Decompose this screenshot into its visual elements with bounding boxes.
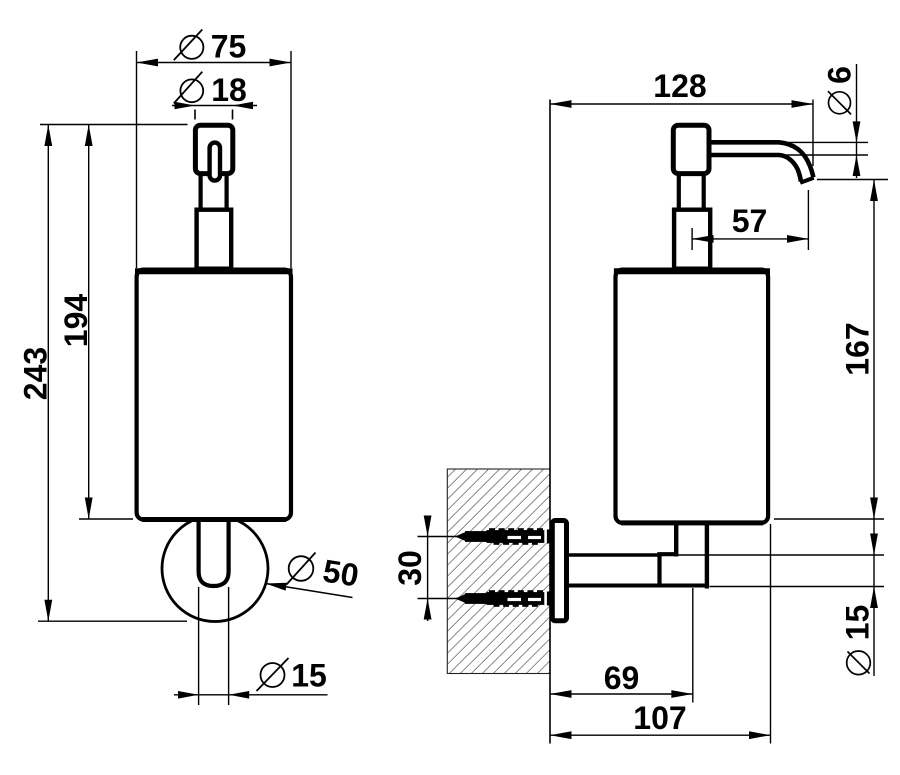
label Ø50: diameter symbol (289, 556, 314, 581)
dimension 69: line (550, 693, 693, 695)
dimension 30: line with outside arrows (427, 516, 429, 621)
dimension 243: line (47, 125, 49, 622)
dimension 128: right extension (812, 100, 814, 167)
dimension Ø6: diameter symbol (rotated) (829, 92, 851, 114)
screw bottom (455, 590, 550, 607)
dimension Ø15 (bottom): line with outside arrows (174, 694, 328, 696)
dimension 57: right extension (807, 190, 809, 250)
dimension Ø18: diameter symbol (180, 79, 203, 102)
pump stem (199, 174, 203, 208)
label Ø50: leader line (266, 584, 353, 598)
screw ext line (top, for 30) (418, 536, 459, 538)
body top thick edge (135, 268, 293, 274)
pump head slot (capsule) (210, 143, 220, 181)
tube extension lines (to Ø15 dim) (198, 587, 200, 705)
dimension Ø15 (right): diameter symbol (rotated) (847, 651, 871, 675)
194 bottom extension line (79, 518, 133, 520)
wall section (hatched) (447, 469, 550, 674)
dimension 167: top extension (817, 179, 888, 181)
dimension 167 / Ø15 shared vertical line (873, 180, 875, 677)
svg-text:57: 57 (732, 203, 768, 239)
pump head (195, 125, 232, 173)
body top thick edge (side) (614, 268, 770, 274)
svg-text:69: 69 (604, 660, 640, 696)
dimension 69: extension line (692, 588, 694, 703)
arm tube top line (569, 553, 660, 557)
dimension Ø75: right arrow (270, 59, 292, 67)
dimension Ø15: diameter symbol (261, 663, 285, 687)
svg-text:167: 167 (840, 322, 876, 375)
body (bottle, side view) (616, 270, 769, 523)
spout bottom line + bend (710, 155, 801, 182)
flange circle (wall plate, front) (162, 516, 268, 622)
svg-text:6: 6 (822, 66, 858, 84)
mounting plate (side) (552, 521, 566, 621)
dimension Ø75: diameter symbol (180, 36, 203, 59)
screw ext line (bottom, for 30) (418, 598, 459, 600)
dimension 107: line (550, 734, 771, 736)
pump head (side) (673, 125, 709, 173)
body bottom thick edge (side) (621, 520, 763, 525)
spout tip end face (800, 178, 814, 183)
dimension 128: line (550, 103, 813, 105)
spout top line + bend (710, 142, 813, 177)
243 bottom extension line (38, 620, 187, 622)
dimension 57: line (692, 238, 808, 240)
pump stem (side) (677, 174, 681, 208)
pump collar (197, 210, 232, 269)
svg-text:243: 243 (18, 347, 54, 400)
dimension 57: centre tick (691, 228, 693, 250)
dimension Ø15 (right): outside arrows (870, 534, 878, 556)
dimension 107: right extension (770, 524, 772, 744)
pump lower tube (U into flange) (199, 522, 229, 586)
screw top (455, 528, 550, 545)
svg-text:30: 30 (392, 550, 428, 586)
body (bottle, front view) (137, 270, 291, 520)
arm tube bottom line (569, 584, 707, 588)
svg-text:128: 128 (653, 68, 706, 104)
svg-text:15: 15 (840, 605, 876, 641)
dimension Ø18: dashed extensions (194, 110, 196, 120)
arm elbow joint (657, 553, 661, 584)
label Ø50: arrow (266, 583, 287, 591)
holder ring left edge (674, 521, 678, 557)
dimension Ø75: line (137, 62, 292, 64)
holder ring right edge (705, 521, 709, 589)
pump collar (side) (674, 210, 710, 269)
svg-text:194: 194 (58, 294, 94, 348)
dimension Ø6: line with outside arrows (856, 64, 858, 178)
svg-text:50: 50 (320, 552, 361, 593)
dimension 194: line (88, 125, 90, 520)
svg-text:15: 15 (291, 658, 327, 694)
dimension Ø15 (right): extension lines (678, 554, 885, 556)
body bottom thick edge (142, 517, 286, 522)
wall face line (549, 100, 551, 744)
dimension Ø6: extension lines (780, 141, 868, 143)
dimension Ø75: extension lines (136, 51, 138, 268)
243/194 top extension line (40, 124, 188, 126)
svg-text:18: 18 (211, 72, 247, 108)
dimension Ø18: line with outside arrows (172, 105, 257, 107)
svg-text:107: 107 (633, 700, 686, 736)
dimension Ø75: left arrow (137, 59, 159, 67)
dimension 167: bottom extension (774, 518, 884, 520)
svg-text:75: 75 (211, 29, 247, 65)
